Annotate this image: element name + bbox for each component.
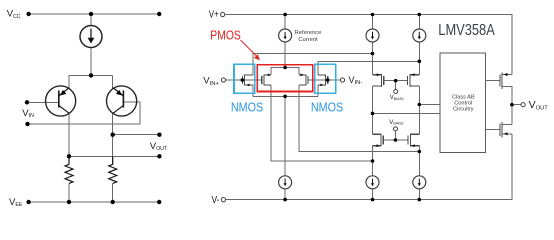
svg-text:VEE: VEE [9, 197, 23, 208]
svg-text:Reference: Reference [295, 30, 322, 36]
svg-text:NMOS: NMOS [231, 100, 263, 114]
svg-text:VBIAS2: VBIAS2 [389, 120, 403, 126]
svg-text:Circuitry: Circuitry [453, 107, 474, 113]
svg-text:V-: V- [212, 195, 220, 206]
svg-text:LMV358A: LMV358A [438, 22, 495, 39]
svg-text:Current: Current [298, 37, 318, 43]
svg-text:VOUT: VOUT [529, 99, 549, 111]
svg-text:VIN+: VIN+ [203, 76, 219, 87]
svg-text:V+: V+ [209, 10, 219, 21]
svg-text:VIN: VIN [22, 108, 34, 119]
svg-text:VOUT: VOUT [150, 141, 168, 152]
svg-text:Control: Control [454, 101, 472, 107]
svg-text:PMOS: PMOS [210, 29, 241, 43]
svg-text:NMOS: NMOS [311, 100, 343, 114]
svg-text:VCC: VCC [7, 9, 21, 20]
svg-text:VBIAS1: VBIAS1 [390, 95, 404, 101]
svg-text:VIN-: VIN- [349, 75, 363, 86]
svg-text:Class AB: Class AB [452, 94, 475, 100]
